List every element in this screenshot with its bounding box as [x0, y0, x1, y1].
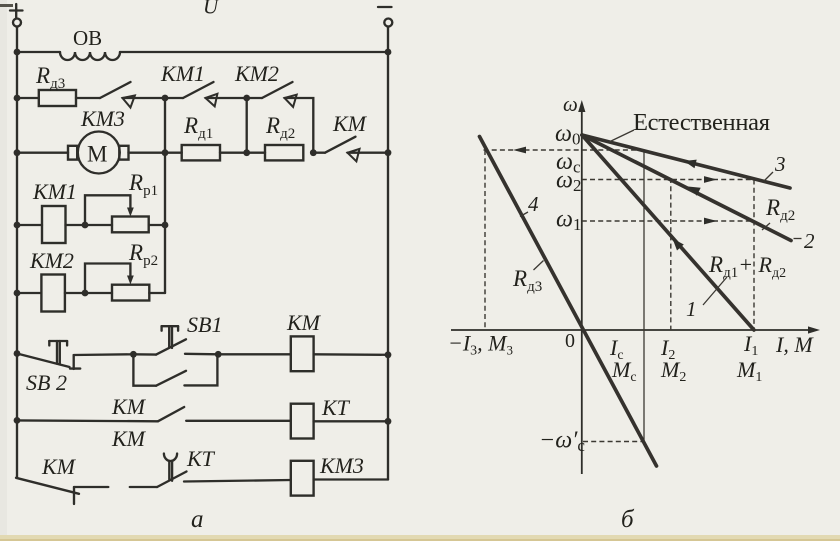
resistor Rd1	[182, 145, 220, 160]
node A	[162, 95, 169, 102]
wire KM contact to KT coil	[186, 420, 291, 422]
contact KM3 (braking contactor)	[100, 82, 135, 108]
coil KM1	[42, 206, 66, 243]
svg-text:КМ: КМ	[41, 454, 77, 479]
axis omega (vertical)	[578, 100, 585, 474]
svg-text:КТ: КТ	[321, 395, 351, 420]
node S1	[130, 351, 137, 358]
wire motor to node A2	[129, 152, 166, 154]
scan edge mark	[0, 4, 13, 7]
node left bus / Rp1 row	[14, 222, 21, 229]
label KM (NC contact)	[41, 454, 77, 479]
wire KM3 coil to right bus corner	[314, 478, 388, 480]
label SB2	[26, 370, 67, 395]
label omega_c	[556, 149, 581, 177]
svg-text:ω: ω	[563, 92, 578, 116]
svg-text:КМ3: КМ3	[80, 106, 125, 131]
label KM (self-holding contact)	[111, 394, 147, 419]
label OB	[73, 26, 102, 50]
label Rp1	[128, 170, 158, 199]
label KM2 (contact)	[234, 61, 279, 86]
wire to KM2 coil	[17, 292, 41, 294]
dashed omega_c horizontal with left arrow	[484, 147, 644, 154]
solid thin vertical Ic	[643, 150, 645, 442]
wire Rd1 to node B2	[220, 152, 247, 154]
dashed vertical I1	[753, 180, 755, 331]
svg-text:КМ: КМ	[111, 426, 147, 451]
node tap Rp2	[82, 290, 89, 297]
wire node A2 to Rd1	[165, 152, 182, 154]
label Mc	[611, 357, 637, 385]
label U	[203, 0, 220, 19]
label KM3 (coil)	[319, 453, 364, 478]
node B2 motor row	[243, 149, 250, 156]
pointer line to natural characteristic	[609, 130, 634, 142]
wire to Rd3	[17, 97, 39, 99]
label Rd3 (graph)	[512, 261, 544, 296]
svg-text:3: 3	[774, 152, 786, 176]
label Rd2	[265, 113, 295, 142]
wire top bus right	[120, 51, 388, 53]
node right bus / KT row	[385, 418, 392, 425]
inductor OB (field winding)	[60, 52, 120, 60]
label KM (coil)	[286, 310, 322, 335]
wire KM2 coil to tap node	[65, 292, 85, 294]
label -omega_c'	[539, 428, 585, 456]
terminal right	[384, 19, 392, 27]
wire SB1 to node S2	[185, 353, 218, 356]
label KM (contact)	[332, 111, 368, 136]
label M2	[660, 357, 686, 385]
svg-text:4: 4	[528, 192, 539, 216]
label KM1 (coil)	[32, 179, 77, 204]
label 4	[520, 192, 539, 217]
svg-text:КМ1: КМ1	[160, 61, 205, 86]
label I1	[743, 331, 758, 359]
wire Rp2 slider loop	[85, 264, 134, 294]
label Rp2	[128, 240, 158, 269]
wire KM3 contact to node A	[123, 97, 166, 99]
line 1 characteristic Rd1+Rd2	[582, 135, 754, 330]
label minus (negative terminal)	[378, 6, 392, 8]
wire left bus to motor	[17, 152, 68, 154]
svg-text:КМ1: КМ1	[32, 179, 77, 204]
wire right bus	[387, 27, 389, 480]
wire KM1 contact to node B	[206, 97, 247, 99]
resistor Rd2	[265, 145, 303, 160]
wire Rp2 to vertical A corner	[149, 292, 165, 294]
motor M armature	[68, 132, 129, 174]
node S2	[215, 351, 222, 358]
label Rd2 (graph)	[762, 195, 795, 230]
wire KM contact to right bus	[348, 152, 389, 154]
label Rd1+Rd2 (graph)	[708, 252, 786, 281]
caption b	[621, 506, 635, 533]
wire node B2 to Rd2	[247, 152, 265, 154]
svg-text:−I3, М3: −I3, М3	[448, 331, 513, 359]
button SB1 (start, NO)	[133, 326, 186, 354]
svg-text:б: б	[621, 506, 635, 533]
button SB2 (stop, NC)	[17, 341, 80, 369]
line 2 characteristic Rd2	[582, 135, 791, 241]
wire KM2 contact to corner	[285, 98, 314, 153]
label omega2	[556, 168, 581, 196]
label KM (KT-row contact)	[111, 426, 147, 451]
label -I3, M3	[448, 331, 513, 359]
wire Rp1 slider loop	[85, 195, 134, 225]
label KM1 (contact)	[160, 61, 205, 86]
label Rd3	[35, 63, 65, 92]
svg-text:КМ: КМ	[286, 310, 322, 335]
wire to KM1 coil	[17, 224, 42, 226]
node left bus / Rp2 row	[14, 290, 21, 297]
label 2	[794, 229, 816, 253]
svg-text:КМ3: КМ3	[319, 453, 364, 478]
wire gap segment	[130, 486, 157, 488]
wire KT contact to KM3 coil	[184, 480, 291, 482]
contact KM2 (shorts Rd2)	[247, 82, 297, 107]
wire tap node to Rp2	[85, 292, 112, 294]
label omega1	[556, 207, 581, 235]
wire Rp1 to vertical A	[149, 224, 165, 226]
wire top bus left	[17, 51, 60, 53]
line 3 natural characteristic	[582, 135, 790, 188]
coil KM3	[291, 461, 314, 496]
dashed -omega_c horizontal	[583, 441, 642, 443]
wire vertical node A down	[164, 98, 166, 293]
node left bus / motor row	[14, 149, 21, 156]
node tap Rp1	[82, 222, 89, 229]
wire KT coil to right bus	[314, 420, 388, 422]
wire node S2 to KM coil	[218, 353, 291, 355]
label 3	[764, 152, 786, 181]
svg-text:КТ: КТ	[186, 446, 216, 471]
caption a	[191, 506, 204, 533]
contact KM1 (shorts Rd1)	[165, 82, 217, 106]
svg-text:КМ: КМ	[111, 394, 147, 419]
contact KM (energizes KT)	[17, 407, 184, 421]
wire SB2 to node S1	[74, 353, 134, 356]
dashed omega1 horizontal with right arrow	[582, 218, 754, 225]
dashed vertical -I3	[484, 150, 486, 330]
label omega0	[555, 121, 580, 149]
node A3 Rp1 row	[162, 222, 169, 229]
contact KM self-holding	[133, 354, 217, 385]
wire Rd3 to KM3 contact	[76, 97, 100, 99]
svg-text:SB 2: SB 2	[26, 370, 67, 395]
line 4 characteristic Rd3 (braking)	[480, 137, 657, 467]
label KM3	[80, 106, 125, 131]
contact KM (line contactor)	[313, 137, 359, 162]
node right bus / KM coil row	[385, 351, 392, 358]
svg-text:КМ2: КМ2	[29, 248, 74, 273]
label I2	[660, 335, 675, 363]
node left bus / Rd3 row	[14, 95, 21, 102]
svg-text:Естественная: Естественная	[633, 109, 770, 136]
label omega axis	[563, 92, 578, 116]
label SB1	[187, 312, 222, 337]
dashed vertical I2	[670, 178, 672, 330]
svg-text:SB1: SB1	[187, 312, 222, 337]
label I,M axis	[775, 332, 814, 357]
label M1	[736, 357, 762, 385]
svg-text:I, М: I, М	[775, 332, 814, 357]
svg-text:а: а	[191, 506, 204, 533]
label + (positive terminal)	[10, 4, 23, 18]
svg-text:U: U	[203, 0, 220, 19]
svg-text:1: 1	[686, 297, 697, 321]
wire KM1 coil to tap node	[66, 224, 86, 226]
label 1	[686, 277, 727, 321]
label KT (delay contact)	[186, 446, 216, 471]
node right bus / top bus	[385, 49, 392, 56]
resistor Rp2 (rheostat)	[112, 285, 149, 301]
svg-text:КМ2: КМ2	[234, 61, 279, 86]
label Ic	[609, 335, 624, 363]
wire KM coil to right bus	[314, 353, 388, 356]
node left bus / SB row	[14, 350, 21, 357]
node left bus / KT row	[14, 417, 21, 424]
axis I,M (horizontal)	[451, 326, 820, 333]
node C motor row	[310, 149, 317, 156]
coil KT	[291, 404, 314, 439]
contact KM NC (bottom row)	[16, 478, 108, 505]
node left bus / top bus	[14, 49, 21, 56]
svg-text:ОВ: ОВ	[73, 26, 102, 50]
dashed omega2 horizontal with right arrow	[582, 176, 754, 183]
resistor Rp1 (rheostat)	[112, 217, 149, 233]
coil KM	[291, 336, 314, 371]
coil KM2	[41, 275, 65, 312]
contact KT (time-delay closing)	[157, 454, 186, 488]
label Rd1	[183, 113, 213, 142]
wire tap node to Rp1	[85, 224, 112, 226]
resistor Rd3	[39, 90, 76, 106]
wire left bus	[16, 27, 18, 478]
node B	[243, 95, 250, 102]
terminal left	[13, 19, 21, 27]
svg-text:0: 0	[565, 330, 575, 352]
label 0 (origin)	[565, 330, 575, 352]
svg-text:КМ: КМ	[332, 111, 368, 136]
node right bus / motor row	[385, 149, 392, 156]
wire vertical node B down	[246, 98, 248, 153]
label KM2 (coil)	[29, 248, 74, 273]
svg-text:2: 2	[804, 229, 815, 253]
label KT (coil)	[321, 395, 351, 420]
svg-text:М: М	[87, 142, 107, 167]
node A2 motor row	[162, 149, 169, 156]
bottom scan band	[0, 535, 840, 541]
label Estestvennaya	[633, 109, 770, 136]
